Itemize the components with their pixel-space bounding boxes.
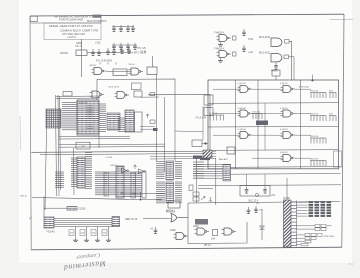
resistor R1 box — [76, 50, 87, 56]
matrix row line 2 — [208, 125, 339, 128]
gate U7 — [129, 68, 144, 75]
svg-text:4049: 4049 — [170, 229, 176, 232]
short net y188 — [198, 187, 213, 189]
vertical bus left 2 — [73, 148, 76, 195]
svg-text:+13.5 V: +13.5 V — [67, 35, 76, 39]
U20 right pin wires — [85, 153, 92, 189]
U20 box — [77, 157, 85, 188]
vertical net to RAM block — [152, 56, 154, 67]
buffer box U56 — [192, 140, 202, 147]
svg-text:22 47 1K: 22 47 1K — [209, 113, 218, 115]
osc box X2 — [150, 93, 155, 96]
net to connector 1 — [231, 166, 341, 169]
left address bus pair — [56, 95, 57, 196]
svg-text:74LS40: 74LS40 — [46, 231, 55, 234]
mid row 1 boxes — [315, 224, 320, 227]
connector mid row 2 — [297, 228, 315, 230]
R body — [80, 230, 85, 236]
connector top net — [286, 178, 288, 200]
CPU U12 left pin wires — [62, 103, 77, 130]
row wire r4c — [295, 157, 311, 159]
row wire r1a — [213, 88, 240, 90]
CPU U12 pin name column — [87, 106, 94, 129]
drop to bus x140 — [140, 192, 142, 200]
svg-text:OSC 32 K: OSC 32 K — [248, 201, 259, 203]
svg-text:SERIAL GEAR PORT AT CN5 PTR: SERIAL GEAR PORT AT CN5 PTR — [49, 24, 93, 28]
svg-text:8049 HLI: 8049 HLI — [79, 103, 88, 105]
R body — [91, 230, 96, 236]
net from U48 — [289, 57, 295, 80]
net v1 — [261, 209, 263, 240]
connector mid row 1 — [297, 225, 315, 227]
short bus y193 — [120, 192, 165, 195]
svg-text:47C 15 B DS04: 47C 15 B DS04 — [96, 61, 113, 63]
header J1 dark — [203, 150, 212, 158]
svg-text:1K8 1K8: 1K8 1K8 — [310, 136, 319, 138]
connector label grid — [297, 201, 308, 203]
cap C16 — [154, 227, 158, 234]
timer box U49 — [168, 201, 180, 208]
diode D1 — [260, 226, 265, 229]
ground arrow — [209, 197, 213, 201]
cap C15 — [242, 45, 246, 52]
low row 4 box — [301, 243, 308, 246]
box U6 — [113, 69, 127, 76]
svg-text:1K8 1K8: 1K8 1K8 — [310, 113, 319, 115]
svg-text:FOR PC10/64 AND: FOR PC10/64 AND — [59, 18, 83, 22]
low row 3 box — [305, 240, 311, 243]
speaker box LS1 — [195, 219, 208, 225]
vertical net F — [202, 106, 204, 140]
long system bus A — [32, 151, 217, 152]
cap C10 polarized — [106, 48, 110, 55]
mid bus row 2 — [59, 146, 165, 149]
cap C2 — [119, 25, 123, 32]
top mini bus 2 — [56, 97, 100, 100]
svg-text:SER IN 13: SER IN 13 — [125, 217, 138, 221]
op-amp U30 — [122, 168, 128, 172]
lower cluster U26 left wires — [156, 182, 165, 203]
cap C8 — [91, 49, 95, 56]
wire row a — [140, 125, 155, 127]
U26 pins — [166, 182, 174, 203]
cap C13 — [127, 47, 131, 54]
comparator U5 — [92, 68, 107, 75]
svg-text:+133: +133 — [95, 42, 101, 45]
svg-text:74 LS 244: 74 LS 244 — [195, 117, 207, 120]
connector spine — [296, 201, 298, 247]
long bus y198 — [32, 198, 162, 200]
gate U38 — [238, 132, 253, 139]
svg-text:4 HC03: 4 HC03 — [280, 152, 288, 154]
svg-text:+5C: +5C — [271, 195, 276, 197]
coupling box 2 — [233, 52, 237, 56]
jumper box W1 — [150, 120, 155, 124]
box U11b — [134, 91, 142, 97]
wire y97 — [140, 96, 159, 98]
long return net — [188, 202, 340, 204]
R body — [102, 230, 107, 236]
gate U11 — [115, 92, 130, 99]
row wire r2b — [252, 113, 283, 115]
svg-text:74HC04: 74HC04 — [214, 31, 224, 35]
register U39 dark box — [256, 121, 268, 126]
U13 right wires — [118, 118, 126, 132]
gate U10 — [90, 91, 105, 98]
small box U9 — [63, 92, 72, 97]
riser to osc 1 — [246, 174, 248, 186]
fan line 1 — [150, 155, 216, 158]
gnd G1 — [218, 43, 223, 47]
svg-text:RTC 15 B: RTC 15 B — [134, 51, 146, 55]
svg-text:4 HC03: 4 HC03 — [280, 83, 288, 85]
svg-text:PWR GND: PWR GND — [324, 236, 335, 238]
capacitor C17 — [245, 187, 249, 194]
vertical net D — [215, 158, 217, 205]
svg-text:HRM: HRM — [76, 41, 82, 45]
decoupling cap bank C1-C4 rail — [112, 26, 134, 28]
gnd G3 — [73, 238, 78, 242]
mid bus row — [59, 143, 165, 146]
bus line y139 — [59, 138, 130, 140]
decoder U15 box — [135, 112, 143, 132]
low row 1 boxes — [305, 234, 310, 237]
svg-text:1D3 1D4: 1D3 1D4 — [252, 111, 261, 113]
junction dot bus — [140, 199, 142, 201]
title block revision box — [30, 16, 37, 21]
cap C7 — [126, 43, 130, 50]
gnd G4 — [84, 238, 89, 242]
capacitor C19 — [247, 207, 251, 214]
resistor ladder bus — [54, 219, 113, 227]
IC U55 pins — [112, 217, 120, 227]
cap C6 — [119, 43, 123, 50]
border frame bottom — [31, 247, 342, 250]
row wire r1b — [252, 88, 283, 90]
row wire r3c — [295, 134, 311, 136]
U19 pin wires — [55, 172, 64, 187]
U24 right wires — [136, 172, 143, 197]
box U32 — [227, 147, 235, 154]
bus line y136 — [59, 135, 130, 137]
mid row 1 tail — [327, 225, 332, 227]
gate U46 — [217, 51, 232, 58]
CPU U12 right pin wires — [99, 104, 106, 131]
U23 box — [116, 166, 124, 198]
top mini bus — [56, 95, 100, 98]
matrix col line 2 — [257, 80, 259, 169]
gate U48 — [271, 54, 282, 62]
margin line — [19, 116, 22, 150]
IC U54 pins — [44, 217, 54, 228]
box 74LS — [272, 70, 280, 76]
svg-text:+5 R10: +5 R10 — [105, 157, 113, 159]
vertical wire from title block — [81, 39, 83, 77]
gate U47 — [271, 38, 282, 46]
svg-text:74C04: 74C04 — [128, 64, 135, 66]
pullup drop R4 — [86, 227, 88, 239]
matrix bus bundle — [193, 163, 223, 165]
U23 right wires — [124, 172, 131, 197]
gate U51 — [174, 233, 189, 240]
node stub row1 — [60, 52, 68, 54]
svg-text:TDA: TDA — [248, 37, 253, 41]
latch U18 box — [76, 142, 90, 149]
cap C9 — [97, 49, 101, 56]
net label dark — [193, 156, 202, 159]
vertical bus left — [60, 96, 61, 190]
wire row1 — [87, 52, 133, 54]
gate U34 — [281, 86, 296, 93]
crystal Y1 — [274, 63, 278, 70]
U27 pin wires — [193, 162, 204, 178]
riser to osc 2 — [264, 174, 266, 186]
wire to column bus — [148, 95, 210, 153]
tick row2 c — [115, 63, 117, 65]
U25 pins — [166, 161, 174, 180]
U22 pins — [104, 172, 109, 196]
svg-text:+5 HC00: +5 HC00 — [237, 108, 246, 110]
svg-text:4 HC03: 4 HC03 — [280, 129, 288, 131]
cap rail row2 — [112, 44, 137, 46]
svg-text:C1206: C1206 — [78, 208, 86, 211]
RAM U14 pins — [125, 110, 134, 132]
option box W5 — [193, 197, 199, 201]
border frame top — [30, 14, 344, 16]
+5 arrow 2 — [133, 165, 136, 169]
svg-text:CN 5B: CN 5B — [283, 198, 290, 200]
wire row3 — [106, 71, 131, 73]
transistor Q1 — [201, 196, 205, 200]
capacitor C20 — [254, 206, 258, 213]
coupling box — [233, 36, 237, 40]
cross net y131 — [175, 130, 203, 133]
svg-text:4 c: 4 c — [348, 261, 353, 266]
U26 right wires — [175, 182, 182, 203]
check mark — [29, 217, 32, 220]
vertical net C — [196, 159, 198, 203]
row wire r3b — [252, 134, 283, 136]
dark net label 2 — [200, 158, 210, 161]
connector pin stubs — [291, 202, 297, 246]
oscillator box OSC1 — [240, 186, 270, 197]
svg-text:PB 13: PB 13 — [204, 244, 211, 247]
gate U33 — [238, 86, 253, 93]
gnd G2 — [218, 59, 223, 63]
title block right edge — [100, 15, 102, 23]
loop net down — [188, 218, 247, 244]
U24b box — [142, 172, 146, 198]
upper cluster U25 left wires — [156, 162, 165, 179]
gate U40 — [281, 132, 296, 139]
svg-text:1K8 1K8: 1K8 1K8 — [310, 158, 319, 160]
svg-text:1K8 1K8: 1K8 1K8 — [310, 90, 319, 92]
gate U31 — [139, 169, 145, 173]
junction dot J2 — [204, 142, 206, 144]
row wire r3a — [213, 134, 240, 136]
pullup drop R3 — [75, 227, 77, 239]
U31 out bubble — [144, 170, 146, 172]
connector low row 4 — [297, 244, 301, 246]
left data bus — [58, 95, 59, 196]
vertical drop x44 — [43, 197, 45, 218]
long vertical net B — [174, 86, 176, 161]
svg-text:LM324: LM324 — [110, 165, 117, 167]
cap C11 polarized — [112, 48, 116, 55]
ROM U13 pins — [107, 113, 120, 130]
svg-text:74HC04: 74HC04 — [214, 47, 224, 51]
junction stub — [312, 75, 314, 81]
junction node — [311, 79, 313, 81]
svg-text:AB0 AB7: AB0 AB7 — [219, 158, 229, 161]
row wire r2c — [295, 113, 311, 115]
enclosure top edge — [97, 79, 175, 100]
long vertical net E — [156, 75, 158, 162]
wire U56 to matrix — [202, 143, 208, 145]
filter component FB1 — [67, 207, 77, 211]
output net — [178, 203, 189, 218]
input wire — [143, 218, 171, 220]
crystal Y2 — [255, 193, 258, 196]
osc box X1 — [132, 83, 142, 90]
long vertical net A — [164, 97, 166, 172]
long net y185 — [198, 184, 341, 187]
U25 right wires — [175, 162, 182, 179]
U22 right wires — [109, 172, 116, 195]
capacitor C18 — [263, 187, 267, 194]
or gate U50 — [171, 214, 177, 222]
gate U52 — [195, 228, 210, 235]
power net +5 arrow — [146, 114, 149, 118]
gate U45 — [217, 35, 232, 42]
cap C14 — [242, 29, 246, 36]
cap bank row 2 C5 — [112, 43, 116, 50]
gate U41 — [281, 155, 296, 162]
gate matrix outer box — [208, 80, 339, 169]
svg-text:MC14011: MC14011 — [259, 35, 271, 39]
pullup drop R6 — [108, 227, 110, 239]
gate U53 — [222, 228, 237, 235]
svg-text:+5 HC00: +5 HC00 — [237, 83, 246, 85]
drop x99 — [98, 135, 100, 148]
cap C4 — [131, 25, 135, 32]
svg-text:4049: 4049 — [193, 225, 199, 228]
matrix row line 3 — [208, 149, 339, 152]
svg-text:A HC0032: A HC0032 — [299, 86, 310, 89]
CPU U12 box — [77, 100, 99, 135]
low row 2 boxes — [305, 237, 310, 240]
out box U48 — [284, 55, 289, 59]
tick row2 a — [99, 63, 101, 65]
gnd G6 — [106, 238, 111, 242]
net to connector 2 — [231, 173, 341, 176]
out box U47 — [285, 40, 290, 44]
wire row b — [140, 128, 155, 130]
U30 out bubble — [127, 170, 129, 172]
tick row2 b — [107, 63, 109, 65]
U22 pin wires — [95, 172, 104, 195]
row wire r4b — [252, 157, 283, 159]
U20 left pin wires — [71, 158, 77, 187]
net to matrix — [275, 76, 277, 80]
cap C12 — [120, 47, 124, 54]
title inner outline — [44, 23, 101, 40]
svg-text:+w3: +w3 — [248, 50, 253, 54]
decoder box U43 — [204, 108, 213, 116]
connector CN1 body — [284, 200, 292, 247]
DIP switch SW1 — [46, 109, 61, 128]
connector low row 2 — [297, 237, 305, 239]
R3 body — [69, 230, 74, 236]
resistor R2 — [213, 230, 218, 236]
svg-text:LM339: LM339 — [89, 65, 96, 67]
matrix col line 3 — [300, 80, 302, 169]
cap C1 — [112, 25, 116, 32]
cap C3 — [126, 25, 130, 32]
svg-text:+5 HC00: +5 HC00 — [237, 129, 246, 131]
option box W3 — [189, 185, 193, 191]
fan line 2 — [150, 157, 216, 160]
svg-text:104: 104 — [211, 238, 216, 241]
cap C7b — [133, 43, 137, 50]
handwriting caption (upside down) — [62, 251, 107, 272]
svg-text:74LS 04 8T: 74LS 04 8T — [108, 87, 120, 89]
svg-text:+L 1345: +L 1345 — [78, 146, 87, 148]
decoder box U42 — [204, 95, 213, 105]
mid row 2 boxes — [315, 228, 320, 231]
svg-text:4 HC03: 4 HC03 — [280, 108, 288, 110]
matrix corner box — [334, 151, 342, 167]
bus terminator RN2 pins — [223, 164, 231, 181]
border frame left — [30, 16, 31, 250]
matrix col line 1 — [235, 80, 237, 169]
connector low row 3 — [297, 241, 305, 243]
option box W4 — [193, 192, 199, 196]
svg-text:MC14011: MC14011 — [259, 51, 271, 55]
gnd G5 — [95, 238, 100, 242]
box U8 — [147, 67, 157, 75]
gate U37 — [281, 110, 296, 117]
pencil line top right — [330, 18, 353, 21]
long system bus B — [40, 154, 216, 155]
row wire r2a — [213, 113, 240, 115]
matrix row line 1 — [208, 102, 339, 105]
pad dark W2 — [153, 128, 158, 131]
net from SW1 down — [45, 128, 47, 210]
U24 pins — [131, 172, 136, 198]
matrix col line 4 — [264, 103, 266, 150]
row wire r1c — [295, 88, 311, 90]
gate U36 — [238, 110, 253, 117]
wire to FB1 — [44, 207, 67, 209]
title separator line — [30, 22, 101, 24]
pullup drop R5 — [97, 227, 99, 239]
connector low row 1 — [297, 234, 305, 236]
svg-text:A15 B: A15 B — [21, 195, 27, 198]
svg-text:MULTICOMP/PC: MULTICOMP/PC — [87, 19, 107, 23]
border frame right — [342, 14, 344, 247]
net from U47 — [289, 41, 292, 80]
title dark label box — [93, 15, 102, 18]
